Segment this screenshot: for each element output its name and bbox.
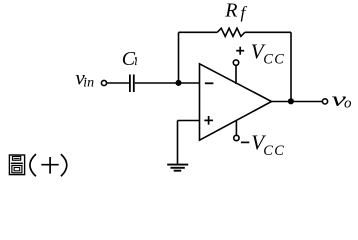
wire bbox=[107, 82, 129, 84]
wire bbox=[135, 82, 200, 84]
svg-text:ı: ı bbox=[134, 54, 137, 68]
svg-text:C: C bbox=[263, 143, 273, 159]
wire bbox=[177, 121, 179, 164]
pin -VCC bbox=[234, 120, 239, 140]
label vin bbox=[75, 66, 94, 91]
wire bbox=[290, 32, 292, 101]
label -VCC bbox=[241, 131, 284, 159]
node inverting junction bbox=[175, 80, 181, 86]
node output junction bbox=[288, 98, 294, 104]
label vo bbox=[332, 87, 353, 112]
figure caption 圖(十) bbox=[9, 154, 66, 176]
output terminal vo bbox=[322, 99, 327, 104]
label +VCC bbox=[236, 39, 284, 67]
svg-text:o: o bbox=[344, 96, 352, 112]
svg-text:f: f bbox=[241, 3, 248, 22]
ground bbox=[167, 165, 188, 171]
svg-text:C: C bbox=[263, 52, 273, 68]
svg-text:C: C bbox=[274, 143, 284, 159]
wire bbox=[272, 101, 323, 103]
wire bbox=[245, 31, 291, 33]
svg-text:ın: ın bbox=[83, 76, 94, 91]
wire bbox=[179, 31, 218, 33]
pin +VCC bbox=[233, 60, 238, 84]
svg-text:C: C bbox=[274, 52, 284, 68]
resistor Rf bbox=[217, 28, 245, 36]
wire bbox=[178, 120, 200, 122]
label Rf bbox=[224, 0, 247, 22]
capacitor Ci bbox=[130, 75, 134, 93]
op-amp U1 bbox=[200, 64, 272, 140]
wire bbox=[178, 32, 180, 83]
input terminal vin bbox=[101, 80, 106, 85]
label Ci bbox=[122, 48, 138, 70]
svg-text:R: R bbox=[224, 0, 237, 21]
